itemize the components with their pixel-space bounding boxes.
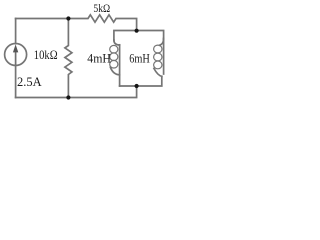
svg-text:6mH: 6mH bbox=[129, 50, 150, 65]
svg-text:5kΩ: 5kΩ bbox=[93, 1, 110, 15]
svg-text:4mH: 4mH bbox=[87, 50, 111, 65]
svg-text:2.5A: 2.5A bbox=[17, 74, 42, 89]
svg-text:10kΩ: 10kΩ bbox=[34, 47, 58, 62]
